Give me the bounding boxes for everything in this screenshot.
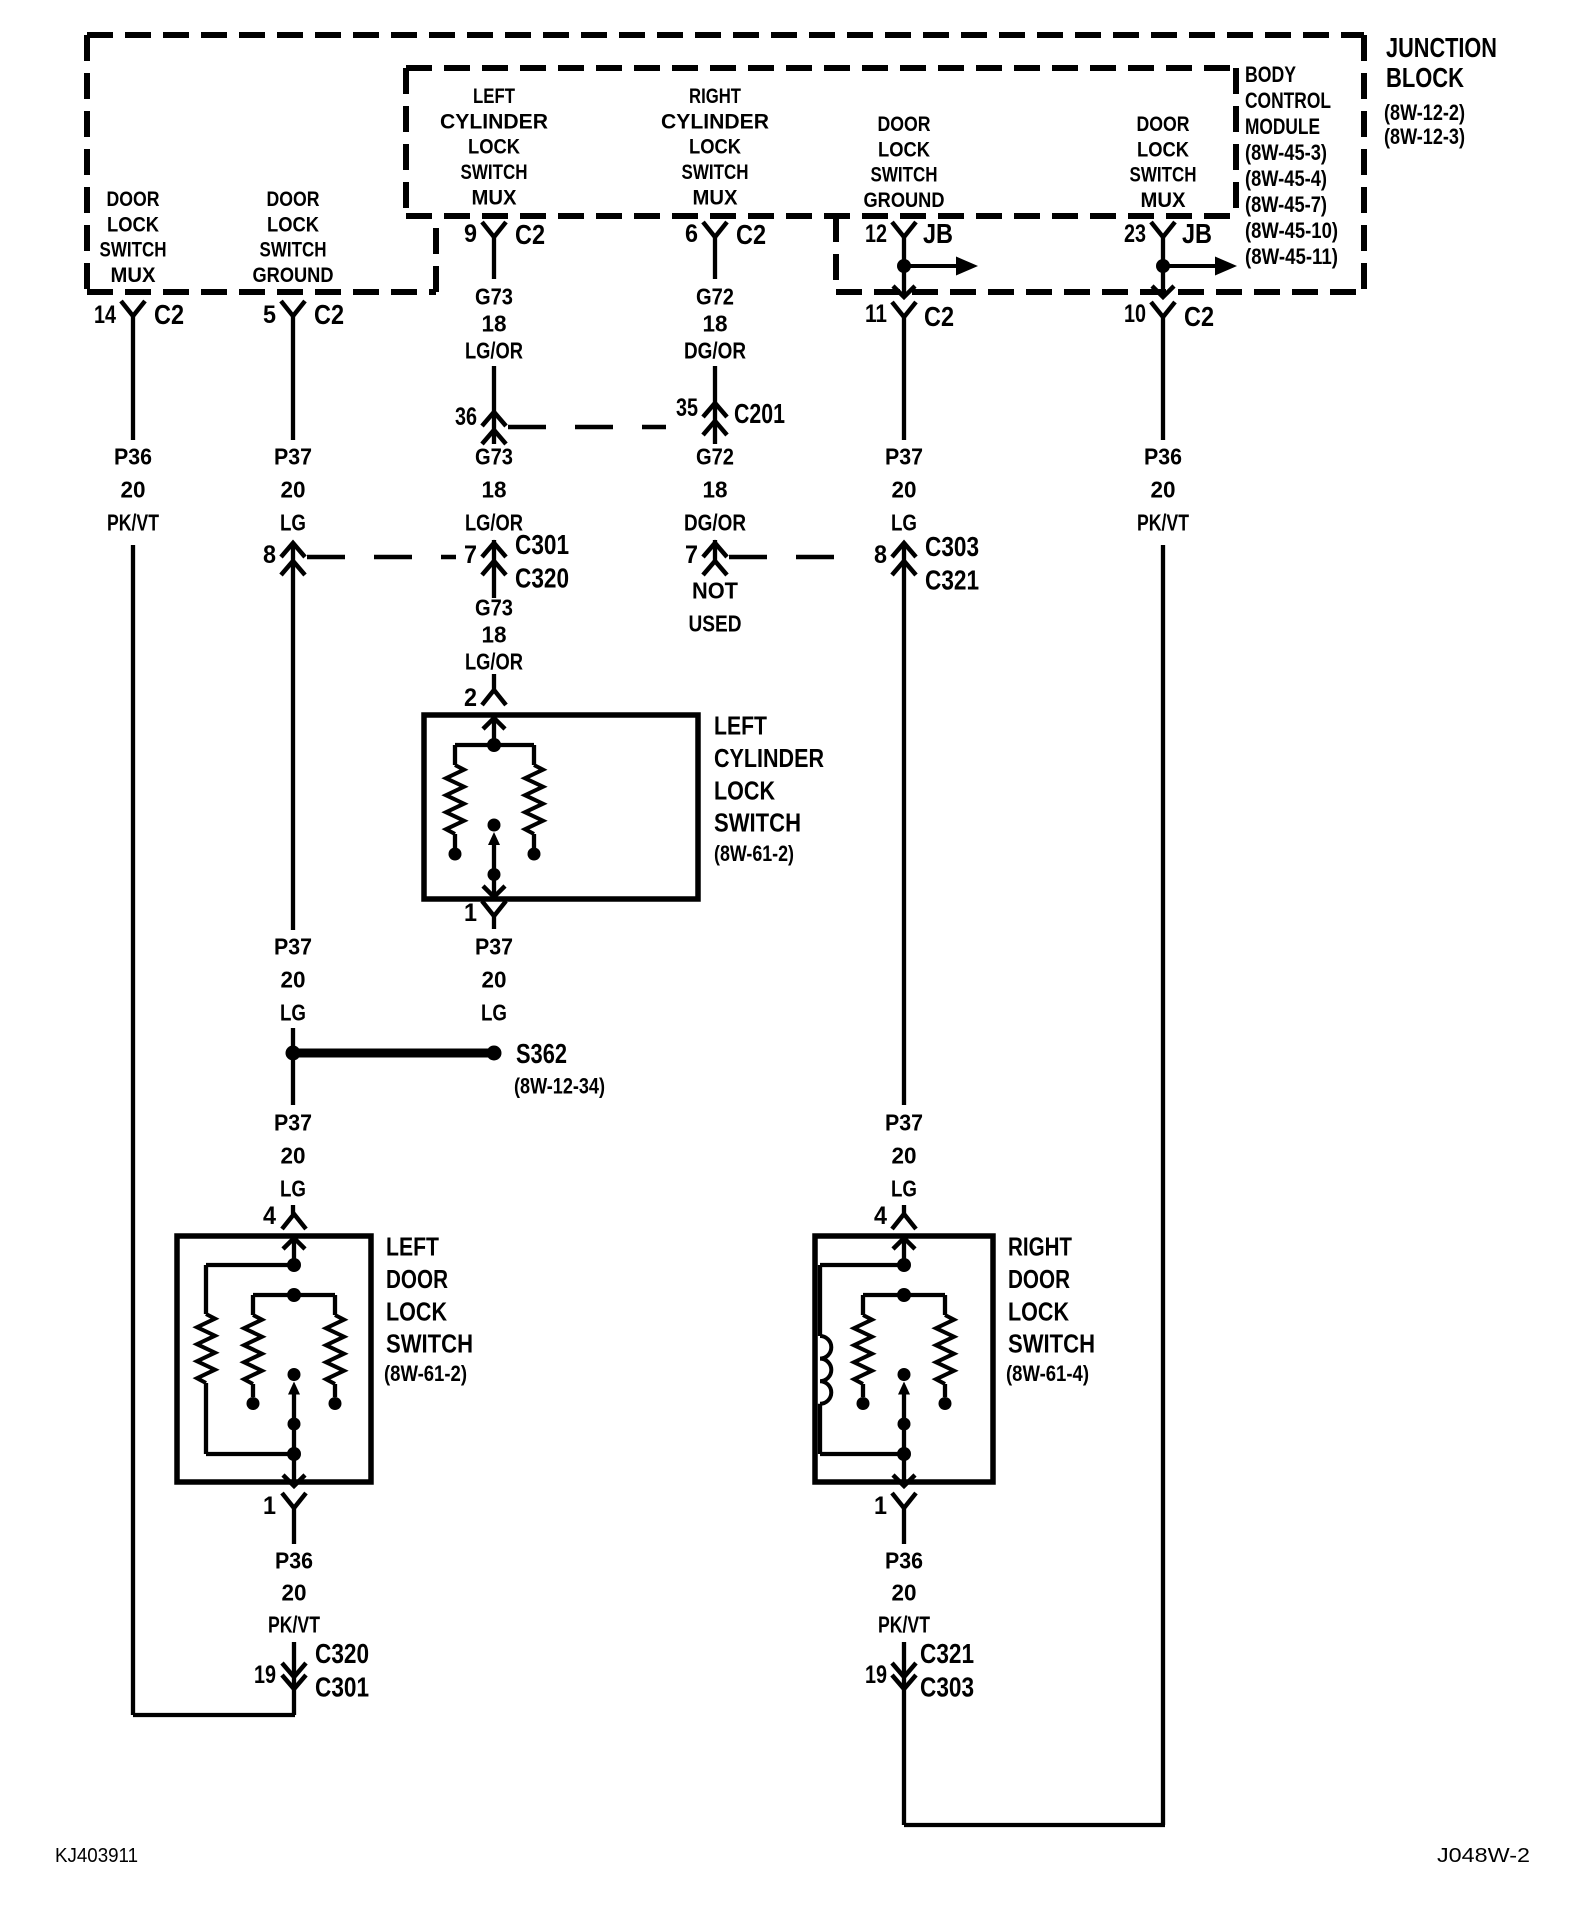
svg-text:20: 20	[281, 477, 306, 503]
svg-text:C301: C301	[515, 529, 569, 560]
svg-text:G73: G73	[475, 595, 513, 621]
svg-text:P37: P37	[885, 444, 923, 470]
svg-text:LOCK: LOCK	[386, 1296, 447, 1326]
svg-text:19: 19	[865, 1661, 887, 1689]
svg-text:LG: LG	[481, 1000, 507, 1026]
svg-text:(8W-45-4): (8W-45-4)	[1245, 166, 1327, 191]
svg-text:1: 1	[263, 1492, 276, 1520]
svg-text:DOOR: DOOR	[267, 188, 320, 211]
svg-text:SWITCH: SWITCH	[260, 239, 327, 262]
svg-text:C321: C321	[925, 565, 979, 596]
svg-text:7: 7	[685, 541, 698, 569]
svg-text:DOOR: DOOR	[1008, 1264, 1070, 1294]
svg-text:10: 10	[1124, 300, 1146, 328]
svg-text:PK/VT: PK/VT	[107, 510, 159, 536]
svg-text:BLOCK: BLOCK	[1386, 62, 1464, 93]
svg-text:G73: G73	[475, 284, 513, 310]
svg-text:4: 4	[874, 1202, 887, 1230]
svg-text:20: 20	[1151, 477, 1176, 503]
svg-text:14: 14	[94, 301, 116, 329]
svg-text:LOCK: LOCK	[1137, 138, 1189, 161]
svg-text:PK/VT: PK/VT	[268, 1612, 320, 1638]
svg-text:20: 20	[892, 1580, 917, 1606]
svg-text:SWITCH: SWITCH	[1008, 1329, 1095, 1359]
svg-text:C320: C320	[515, 563, 569, 594]
svg-text:G73: G73	[475, 444, 513, 470]
svg-text:6: 6	[685, 220, 698, 248]
svg-text:1: 1	[464, 899, 477, 927]
svg-text:20: 20	[281, 1143, 306, 1169]
svg-text:18: 18	[482, 622, 507, 648]
svg-text:(8W-61-2): (8W-61-2)	[714, 841, 794, 866]
svg-text:P36: P36	[885, 1548, 923, 1574]
svg-text:SWITCH: SWITCH	[1130, 164, 1197, 187]
svg-text:SWITCH: SWITCH	[714, 808, 801, 838]
svg-text:C2: C2	[1184, 301, 1214, 332]
svg-text:20: 20	[121, 477, 146, 503]
svg-text:DOOR: DOOR	[1137, 113, 1190, 136]
svg-text:C2: C2	[314, 299, 344, 330]
svg-text:SWITCH: SWITCH	[682, 161, 749, 184]
svg-text:18: 18	[703, 311, 728, 337]
svg-text:PK/VT: PK/VT	[878, 1612, 930, 1638]
svg-text:9: 9	[464, 220, 477, 248]
svg-text:G72: G72	[696, 284, 734, 310]
svg-text:LEFT: LEFT	[386, 1232, 439, 1262]
svg-text:C321: C321	[920, 1638, 974, 1669]
svg-text:8: 8	[874, 541, 887, 569]
svg-text:DOOR: DOOR	[107, 188, 160, 211]
svg-text:LOCK: LOCK	[1008, 1296, 1069, 1326]
svg-text:GROUND: GROUND	[253, 264, 334, 287]
svg-text:DOOR: DOOR	[386, 1264, 448, 1294]
svg-text:4: 4	[263, 1202, 276, 1230]
svg-text:C320: C320	[315, 1638, 369, 1669]
svg-text:C2: C2	[736, 219, 766, 250]
svg-text:18: 18	[703, 477, 728, 503]
svg-text:11: 11	[865, 300, 887, 328]
svg-text:KJ403911: KJ403911	[55, 1845, 138, 1867]
svg-text:20: 20	[281, 967, 306, 993]
svg-text:MUX: MUX	[111, 264, 156, 287]
svg-text:LG: LG	[280, 1176, 306, 1202]
svg-text:LG: LG	[280, 510, 306, 536]
svg-text:RIGHT: RIGHT	[1008, 1232, 1072, 1262]
svg-text:LOCK: LOCK	[689, 136, 741, 159]
svg-text:SWITCH: SWITCH	[100, 239, 167, 262]
svg-text:2: 2	[464, 684, 477, 712]
svg-text:P36: P36	[114, 444, 152, 470]
svg-text:GROUND: GROUND	[864, 189, 945, 212]
svg-text:C303: C303	[920, 1672, 974, 1703]
svg-text:LEFT: LEFT	[714, 711, 767, 741]
svg-text:LOCK: LOCK	[468, 136, 520, 159]
svg-text:8: 8	[263, 541, 276, 569]
svg-text:LOCK: LOCK	[107, 213, 159, 236]
svg-text:PK/VT: PK/VT	[1137, 510, 1189, 536]
svg-text:18: 18	[482, 477, 507, 503]
svg-text:(8W-12-2): (8W-12-2)	[1384, 100, 1465, 125]
svg-text:C301: C301	[315, 1672, 369, 1703]
svg-text:DOOR: DOOR	[878, 113, 931, 136]
svg-text:MODULE: MODULE	[1245, 114, 1320, 139]
svg-text:RIGHT: RIGHT	[689, 85, 741, 108]
svg-text:DG/OR: DG/OR	[684, 338, 746, 364]
svg-text:(8W-12-3): (8W-12-3)	[1384, 124, 1465, 149]
svg-text:MUX: MUX	[472, 186, 517, 209]
svg-text:SWITCH: SWITCH	[871, 164, 938, 187]
svg-text:19: 19	[254, 1661, 276, 1689]
svg-text:MUX: MUX	[693, 186, 738, 209]
svg-text:(8W-12-34): (8W-12-34)	[514, 1074, 605, 1099]
svg-text:USED: USED	[689, 611, 742, 637]
svg-text:36: 36	[455, 403, 477, 431]
svg-text:20: 20	[892, 1143, 917, 1169]
svg-text:LOCK: LOCK	[267, 213, 319, 236]
svg-text:JB: JB	[1182, 218, 1212, 249]
svg-text:CYLINDER: CYLINDER	[661, 110, 769, 133]
svg-text:1: 1	[874, 1492, 887, 1520]
svg-text:5: 5	[263, 301, 276, 329]
svg-text:P36: P36	[1144, 444, 1182, 470]
svg-text:C303: C303	[925, 531, 979, 562]
svg-text:(8W-45-10): (8W-45-10)	[1245, 218, 1338, 243]
svg-text:20: 20	[282, 1580, 307, 1606]
svg-text:LG/OR: LG/OR	[465, 338, 523, 364]
svg-text:C2: C2	[924, 301, 954, 332]
svg-text:LG/OR: LG/OR	[465, 649, 523, 675]
svg-text:P37: P37	[475, 934, 513, 960]
svg-text:20: 20	[482, 967, 507, 993]
svg-text:DG/OR: DG/OR	[684, 510, 746, 536]
svg-text:CYLINDER: CYLINDER	[440, 110, 548, 133]
svg-text:SWITCH: SWITCH	[386, 1329, 473, 1359]
svg-text:LG: LG	[891, 510, 917, 536]
svg-text:CONTROL: CONTROL	[1245, 88, 1331, 113]
svg-text:20: 20	[892, 477, 917, 503]
svg-text:23: 23	[1124, 220, 1146, 248]
svg-text:LG: LG	[891, 1176, 917, 1202]
svg-text:LEFT: LEFT	[473, 85, 515, 108]
svg-text:S362: S362	[516, 1038, 567, 1069]
svg-text:35: 35	[676, 394, 698, 422]
svg-text:JB: JB	[923, 218, 953, 249]
svg-text:18: 18	[482, 311, 507, 337]
svg-text:SWITCH: SWITCH	[461, 161, 528, 184]
svg-text:P36: P36	[275, 1548, 313, 1574]
svg-text:JUNCTION: JUNCTION	[1386, 32, 1497, 63]
svg-text:(8W-45-7): (8W-45-7)	[1245, 192, 1327, 217]
svg-text:CYLINDER: CYLINDER	[714, 743, 824, 773]
svg-text:(8W-45-3): (8W-45-3)	[1245, 140, 1327, 165]
svg-text:(8W-61-2): (8W-61-2)	[384, 1361, 467, 1386]
svg-text:P37: P37	[274, 934, 312, 960]
svg-text:12: 12	[865, 220, 887, 248]
svg-text:7: 7	[464, 541, 477, 569]
svg-text:G72: G72	[696, 444, 734, 470]
svg-text:(8W-61-4): (8W-61-4)	[1006, 1361, 1089, 1386]
svg-text:LOCK: LOCK	[714, 775, 775, 805]
svg-text:BODY: BODY	[1245, 62, 1296, 87]
svg-text:MUX: MUX	[1141, 189, 1186, 212]
svg-text:C2: C2	[515, 219, 545, 250]
svg-text:NOT: NOT	[692, 578, 738, 604]
svg-text:LOCK: LOCK	[878, 138, 930, 161]
svg-text:J048W-2: J048W-2	[1437, 1845, 1530, 1867]
svg-text:C2: C2	[154, 299, 184, 330]
svg-text:LG: LG	[280, 1000, 306, 1026]
svg-text:P37: P37	[885, 1110, 923, 1136]
svg-text:(8W-45-11): (8W-45-11)	[1245, 244, 1338, 269]
svg-text:P37: P37	[274, 444, 312, 470]
svg-text:C201: C201	[734, 398, 785, 429]
svg-text:P37: P37	[274, 1110, 312, 1136]
